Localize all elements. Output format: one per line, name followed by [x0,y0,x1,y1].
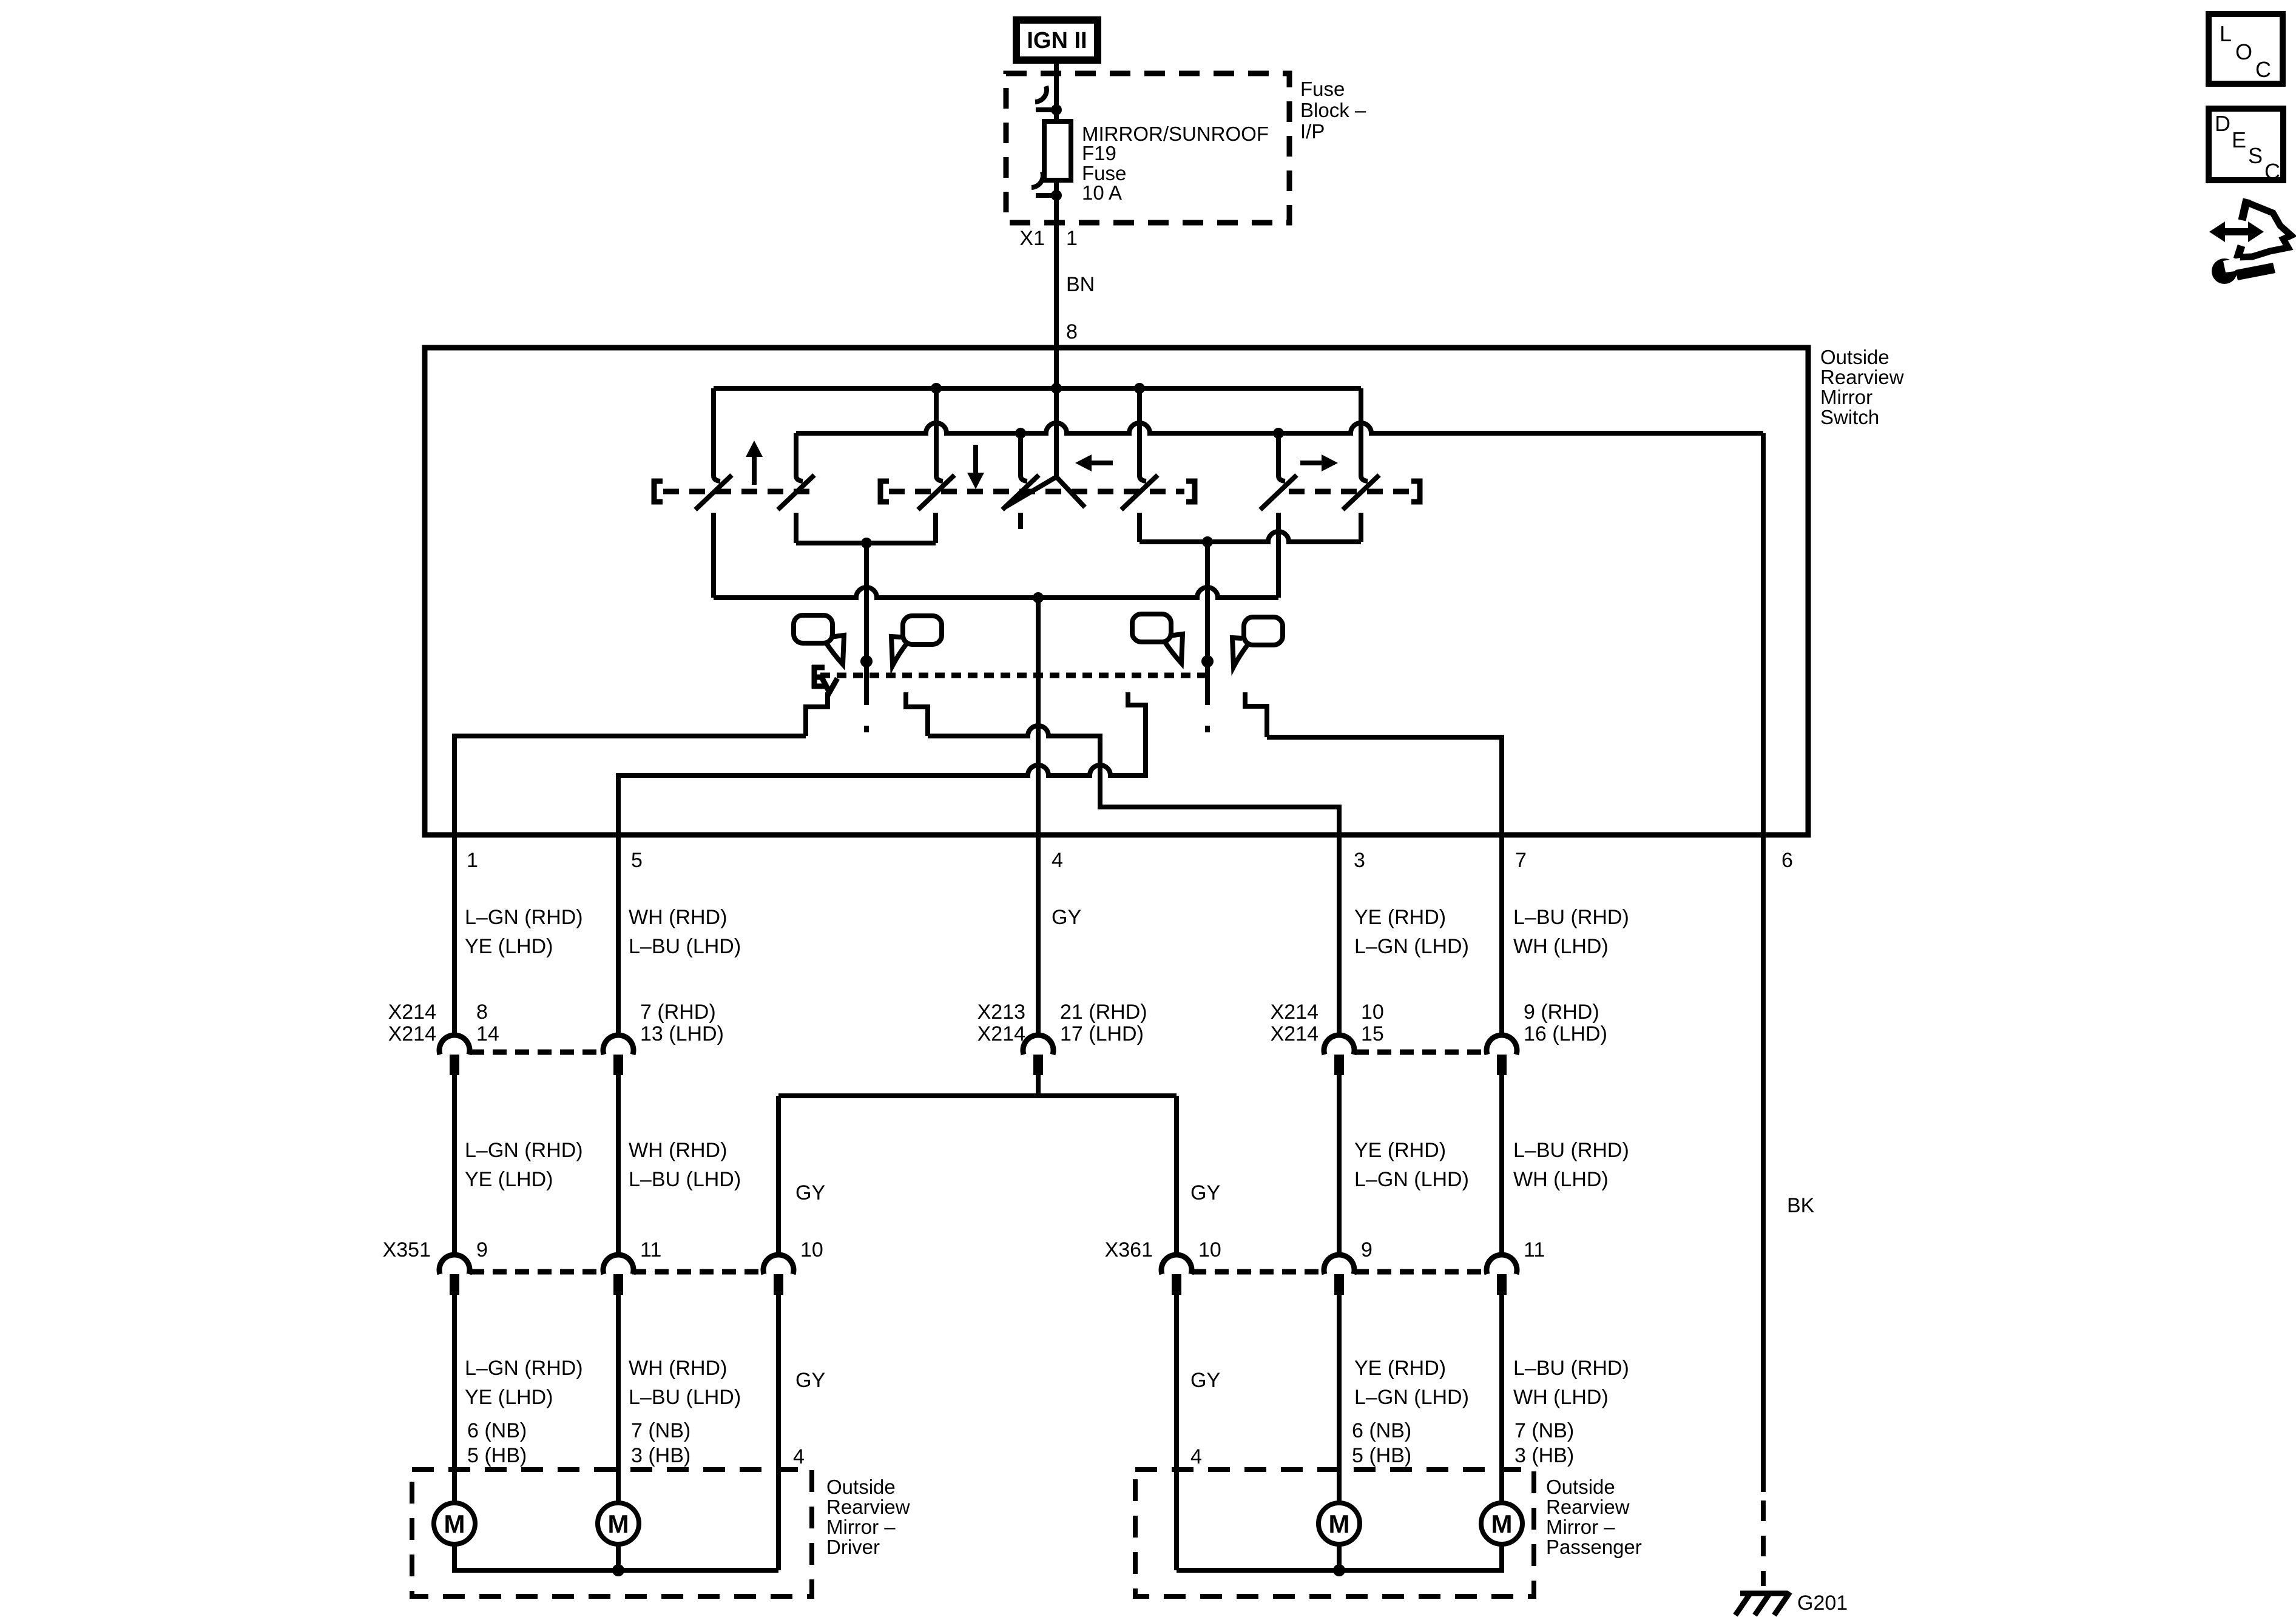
svg-text:GY: GY [1052,906,1081,929]
node on bus1 at left-switch [1134,383,1145,394]
svg-text:1: 1 [1066,227,1078,250]
svg-text:21 (RHD): 21 (RHD) [1060,1001,1147,1024]
svg-text:7 (NB): 7 (NB) [631,1419,690,1442]
connector row1 wire7 [1487,1035,1517,1075]
wire pin4 (GY output) down [1036,598,1041,835]
wire 3 mid segment [1337,1075,1342,1255]
svg-text:L–GN (LHD): L–GN (LHD) [1354,935,1469,958]
svg-text:Rearview: Rearview [1820,366,1904,388]
svg-text:WH (RHD): WH (RHD) [629,906,727,929]
svg-text:8: 8 [476,1001,488,1024]
mirror icon 4 [1232,617,1283,667]
wire to pin1 [454,736,806,835]
svg-text:1: 1 [467,849,478,872]
svg-text:L–BU (LHD): L–BU (LHD) [629,1168,741,1191]
pin labels under switch box [467,849,1793,872]
motor pin labels [467,1419,1574,1468]
svg-text:L–GN (LHD): L–GN (LHD) [1354,1386,1469,1409]
svg-text:3 (HB): 3 (HB) [1514,1444,1574,1467]
node rail low to pin4 [1033,592,1044,603]
svg-text:BK: BK [1787,1194,1815,1217]
svg-text:5: 5 [631,849,643,872]
step wire select driver left [806,692,828,736]
wire routing to pin3 with hop [928,726,1339,835]
wire 7 mid segment [1499,1075,1504,1255]
service icon wrench [2212,258,2275,284]
svg-text:L–BU (LHD): L–BU (LHD) [629,935,741,958]
svg-text:L–GN (RHD): L–GN (RHD) [465,906,583,929]
svg-text:15: 15 [1361,1022,1384,1045]
svg-text:YE (LHD): YE (LHD) [465,1386,553,1409]
svg-text:L–BU (RHD): L–BU (RHD) [1513,1357,1629,1380]
svg-text:16 (LHD): 16 (LHD) [1524,1022,1607,1045]
svg-text:Outside: Outside [826,1476,896,1498]
svg-text:M: M [444,1510,465,1538]
step wire select driver right [906,692,928,736]
switch DOWN left blade bottom terminal [933,513,938,543]
svg-text:GY: GY [795,1369,825,1392]
switch LEFT blade S3a [1140,388,1146,481]
svg-text:Driver: Driver [826,1536,880,1558]
switch RIGHT right blade bottom terminal [1359,513,1363,542]
svg-text:11: 11 [1524,1238,1545,1261]
arrow up [752,454,757,485]
wire 6 BK segment [1761,835,1766,1492]
svg-text:YE (LHD): YE (LHD) [465,935,553,958]
switch UP right blade bottom terminal [794,513,799,543]
svg-text:7: 7 [1515,849,1527,872]
connector row1 wire5 [603,1035,633,1075]
svg-text:F19: F19 [1082,142,1116,164]
LOC reference box [2209,14,2283,84]
switch DOWN right blade S2b [1021,433,1027,481]
arrow down [973,445,978,476]
svg-text:5 (HB): 5 (HB) [1352,1444,1411,1467]
coupling dashed run 2 [889,489,1184,495]
svg-text:C: C [2264,159,2280,184]
svg-text:YE (RHD): YE (RHD) [1354,1357,1446,1380]
svg-text:10: 10 [800,1238,823,1261]
motor M1 passenger [1319,1503,1360,1544]
wire 1 upper segment [452,835,457,1035]
svg-text:E: E [2232,127,2246,152]
node passenger select pole [1201,655,1214,667]
arrow right [1300,461,1325,465]
connector row2 labels [383,1238,1545,1261]
svg-text:10: 10 [1361,1001,1384,1024]
mirror icon 2 [891,616,942,666]
svg-text:7 (NB): 7 (NB) [1514,1419,1574,1442]
driver mirror dashed box [412,1470,812,1596]
svg-text:L–GN (LHD): L–GN (LHD) [1354,1168,1469,1191]
wire below fuse [1054,180,1059,223]
wire 5 lower segment [616,1295,621,1504]
svg-text:13 (LHD): 13 (LHD) [640,1022,724,1045]
junction lower [1051,190,1062,201]
wire from mid-left rail down to driver select pole [864,543,869,661]
power label IGN II [1016,20,1098,60]
wire label row A [465,906,1629,958]
wire rail mid-right (left/right common) with hop [1140,532,1361,542]
wire 5 mid segment [616,1075,621,1255]
svg-text:L–GN (RHD): L–GN (RHD) [465,1139,583,1162]
connector row1 dashed link left [470,1050,604,1055]
wire label row C [465,1357,1629,1409]
switch LEFT blade bottom terminal [1137,513,1142,542]
svg-text:S: S [2248,143,2263,168]
svg-text:Mirror –: Mirror – [826,1516,896,1538]
svg-text:10 A: 10 A [1082,181,1122,204]
driver motor bus [454,1544,778,1570]
DESC reference box [2209,109,2283,184]
wire pin6 vertical from bus2 [1761,433,1766,835]
service icon bent arrow [2237,199,2291,259]
svg-text:4: 4 [1052,849,1063,872]
svg-text:YE (RHD): YE (RHD) [1354,906,1446,929]
label Outside Rearview Mirror - Passenger [1546,1476,1642,1558]
connector row1 labels [388,1001,1607,1045]
svg-text:3: 3 [1354,849,1365,872]
wire rail mid-left (up/down common) [796,541,936,545]
svg-text:X214: X214 [1271,1001,1319,1024]
connector X351 wire1 [439,1255,470,1295]
wire rail low (output rail) with hops [714,587,1278,598]
step wire select passenger right [1245,692,1267,737]
svg-text:WH (RHD): WH (RHD) [629,1139,727,1162]
svg-text:9 (RHD): 9 (RHD) [1524,1001,1599,1024]
connector X361 wire3 [1324,1255,1354,1295]
svg-text:O: O [2235,39,2252,64]
select blade v [822,677,837,692]
svg-text:X214: X214 [1271,1022,1319,1045]
svg-text:11: 11 [640,1238,661,1261]
connector X361 wireGY [1161,1255,1192,1295]
connector X361 dashed links [1192,1269,1488,1275]
motor M1 driver [434,1503,475,1544]
arrow left [1089,461,1113,465]
fuse block dashed box (Fuse Block - I/P) [1006,73,1289,223]
svg-text:D: D [2215,111,2230,136]
svg-text:14: 14 [476,1022,499,1045]
bracket E right mid [1186,481,1195,502]
svg-text:4: 4 [793,1445,805,1468]
svg-text:M: M [608,1510,629,1538]
junction upper [1051,104,1062,115]
wire 4 upper segment [1036,835,1041,1035]
svg-text:5 (HB): 5 (HB) [467,1444,527,1467]
svg-text:X351: X351 [383,1238,431,1261]
wire routing pin5 to passenger select left with hops [618,692,1146,835]
motor M2 driver [598,1503,639,1544]
svg-text:IGN II: IGN II [1027,28,1087,53]
wire bus1 (feed bus) [714,386,1361,391]
passenger mirror dashed box [1135,1470,1534,1596]
svg-text:WH (LHD): WH (LHD) [1513,1386,1609,1409]
switch RIGHT left blade bottom through rails [1276,513,1281,598]
svg-text:10: 10 [1198,1238,1221,1261]
svg-text:Passenger: Passenger [1546,1536,1642,1558]
svg-text:X361: X361 [1105,1238,1153,1261]
wire 7 lower segment [1499,1295,1504,1504]
svg-text:X214: X214 [388,1001,436,1024]
node on bus1 at main feed [1051,383,1062,394]
connector row1 wire3 [1324,1035,1354,1075]
GY right branch down [1174,1096,1179,1255]
coupling dashed run 3 [1289,489,1412,495]
fuse F19 MIRROR/SUNROOF 10A [1044,121,1071,180]
svg-text:BN: BN [1066,273,1095,296]
driver select pole stub [864,661,869,732]
wire GY-right lower segment [1174,1295,1179,1570]
svg-text:X214: X214 [977,1022,1025,1045]
node on bus1 at down-switch [931,383,942,394]
wire bus2 (return bus) with hops [796,423,1763,433]
svg-text:8: 8 [1066,320,1078,343]
svg-text:WH (LHD): WH (LHD) [1513,1168,1609,1191]
label Outside Rearview Mirror - Driver [826,1476,910,1558]
switch RIGHT right blade S4b [1361,388,1368,481]
svg-text:6 (NB): 6 (NB) [467,1419,527,1442]
GY left branch down [776,1096,781,1255]
svg-text:7 (RHD): 7 (RHD) [640,1001,716,1024]
svg-text:Rearview: Rearview [826,1496,910,1518]
svg-text:GY: GY [1190,1181,1220,1204]
connector X361 wire7 [1487,1255,1517,1295]
main feed blade V [1054,388,1059,478]
svg-text:WH (RHD): WH (RHD) [629,1357,727,1380]
motor M2 passenger [1481,1503,1522,1544]
node rail mid-right [1202,536,1213,547]
wire 3 upper segment [1337,835,1342,1035]
node driver bus [612,1564,624,1576]
node on bus2 at right-switch left blade [1273,428,1284,439]
svg-text:I/P: I/P [1300,120,1325,143]
wire 4 lower with GY split [1036,1075,1041,1096]
svg-text:GY: GY [795,1181,825,1204]
svg-text:Mirror –: Mirror – [1546,1516,1615,1538]
svg-text:9: 9 [1361,1238,1373,1261]
switch DOWN right blade bottom stub [1018,513,1023,529]
node rail mid-left [861,538,872,549]
svg-text:Rearview: Rearview [1546,1496,1630,1518]
connector row1 dashed link right [1355,1050,1488,1055]
svg-text:YE (RHD): YE (RHD) [1354,1139,1446,1162]
svg-text:M: M [1329,1510,1350,1538]
bracket E mid [880,481,889,502]
svg-text:G201: G201 [1797,1592,1848,1615]
connector row1 wire1 [439,1035,470,1075]
mirror icon 1 [794,615,844,664]
ground G201 [1735,1592,1790,1615]
svg-text:C: C [2255,57,2271,82]
node passenger bus [1333,1564,1345,1576]
label Fuse Block - I/P [1300,78,1366,143]
svg-text:Switch: Switch [1820,406,1879,428]
wire 1 mid segment [452,1075,457,1255]
GY split horizontal [778,1093,1177,1098]
connector clip lower [1032,172,1043,187]
svg-text:X213: X213 [977,1001,1025,1024]
svg-text:Outside: Outside [1820,346,1889,368]
connector row1 wire4 [1023,1035,1053,1075]
svg-text:Fuse: Fuse [1300,78,1345,100]
outside rearview mirror switch box [425,348,1808,835]
switch UP left blade S1a [714,388,720,481]
wire BN from fuse block to switch [1054,223,1059,388]
wire from IGN II into fuse block [1054,60,1059,121]
switch DOWN left blade S2a [936,388,943,481]
wire label row B [465,1139,1629,1204]
passenger select pole stub [1205,661,1210,732]
svg-text:6 (NB): 6 (NB) [1352,1419,1411,1442]
wire 7 upper segment [1499,835,1504,1035]
select dashed coupling line [820,673,1206,678]
label Outside Rearview Mirror Switch [1820,346,1904,428]
switch UP right blade S1b [796,433,803,481]
switch UP left blade bottom terminal [711,513,716,598]
coupling dashed run 1 [663,489,813,495]
svg-text:Outside: Outside [1546,1476,1615,1498]
svg-text:6: 6 [1781,849,1793,872]
svg-text:X1: X1 [1019,227,1045,250]
svg-text:YE (LHD): YE (LHD) [465,1168,553,1191]
pin labels X1 / 1 [1019,227,1078,250]
svg-text:L–BU (LHD): L–BU (LHD) [629,1386,741,1409]
bracket E far right [1411,481,1420,502]
wire 3 lower segment [1337,1295,1342,1504]
wire to pin7 [1267,737,1502,835]
svg-text:9: 9 [476,1238,488,1261]
svg-text:L–GN (RHD): L–GN (RHD) [465,1357,583,1380]
wire 5 upper segment [616,835,621,1035]
mirror icon 3 [1132,614,1183,663]
switch RIGHT left blade S4a [1278,433,1285,481]
node driver select pole [860,655,873,667]
wire BK dashed lower [1761,1501,1766,1586]
svg-text:WH (LHD): WH (LHD) [1513,935,1609,958]
bracket E select [812,665,825,689]
bracket E left [654,481,663,502]
passenger motor bus [1177,1544,1502,1570]
connector X351 dashed links [470,1269,765,1275]
svg-text:L–BU (RHD): L–BU (RHD) [1513,906,1629,929]
svg-text:M: M [1491,1510,1513,1538]
wire GY-left lower segment [776,1295,781,1570]
service icon double arrow [2209,221,2264,242]
svg-text:L–BU (RHD): L–BU (RHD) [1513,1139,1629,1162]
svg-text:4: 4 [1190,1445,1202,1468]
svg-text:GY: GY [1190,1369,1220,1392]
connector X351 wireGY [763,1255,794,1295]
wire from mid-right rail down to passenger select pole [1205,542,1210,661]
svg-text:17 (LHD): 17 (LHD) [1060,1022,1144,1045]
node on bus2 at down-switch right blade [1015,428,1026,439]
svg-text:Block –: Block – [1300,99,1366,121]
svg-text:L: L [2220,21,2232,46]
svg-text:Mirror: Mirror [1820,386,1872,408]
wire 1 lower segment [452,1295,457,1504]
svg-text:3 (HB): 3 (HB) [631,1444,690,1467]
connector clip upper [1035,86,1047,102]
connector X351 wire5 [603,1255,633,1295]
svg-text:X214: X214 [388,1022,436,1045]
